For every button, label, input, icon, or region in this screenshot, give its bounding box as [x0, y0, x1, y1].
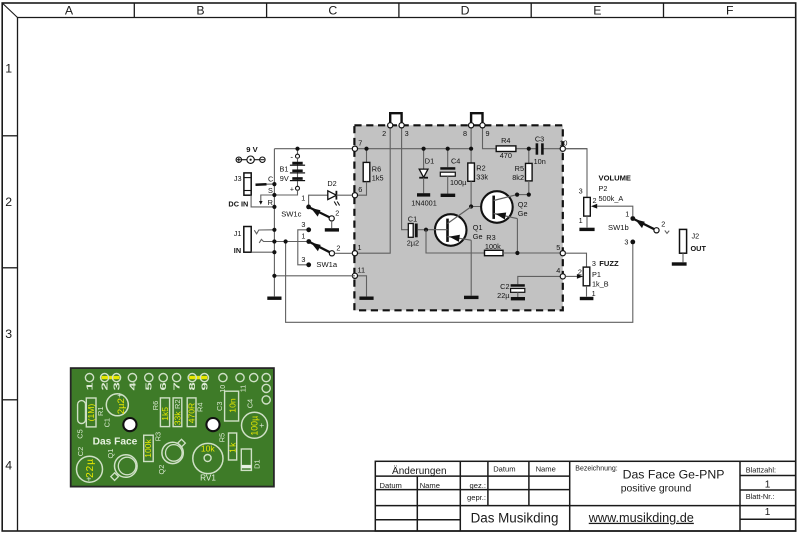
DC jack J3	[228, 173, 251, 209]
svg-text:8: 8	[188, 382, 197, 391]
svg-text:2µ2: 2µ2	[116, 398, 127, 414]
node C	[272, 182, 276, 186]
pcb jumper C5	[75, 401, 85, 439]
svg-text:R5: R5	[218, 433, 227, 442]
wire: Q2 collector to R5 bottom	[517, 194, 529, 196]
pcb jumper wire pads 2-3	[102, 376, 120, 379]
pin 9	[480, 123, 490, 138]
potentiometer P1	[565, 259, 619, 298]
pcb capacitor C4	[242, 399, 268, 438]
wire: pin 5 to P1 top	[565, 253, 586, 267]
ground for SW1c	[325, 228, 339, 231]
potentiometer P2	[579, 174, 633, 228]
svg-text:4: 4	[556, 266, 560, 275]
svg-text:R: R	[268, 198, 273, 207]
pcb resistor R5	[218, 433, 238, 460]
svg-text:DC IN: DC IN	[228, 200, 248, 209]
svg-text:22µ: 22µ	[497, 291, 510, 300]
svg-text:3: 3	[301, 220, 305, 229]
svg-text:1k5: 1k5	[160, 407, 170, 421]
svg-text:Das Musikding: Das Musikding	[471, 510, 559, 525]
svg-text:C4: C4	[451, 157, 460, 166]
output jack J2	[680, 229, 707, 262]
pcb resistor R1	[86, 398, 105, 427]
svg-text:+: +	[259, 420, 264, 430]
node D1/rail	[422, 147, 426, 151]
svg-text:RV1: RV1	[200, 473, 216, 482]
svg-text:SW1a: SW1a	[316, 260, 337, 269]
pcb pad holes row	[85, 374, 270, 405]
svg-text:1: 1	[358, 243, 362, 252]
svg-text:1: 1	[85, 382, 94, 391]
svg-text:C5: C5	[75, 429, 84, 438]
wire: pin 11 to internal ground	[357, 276, 367, 297]
svg-text:10n: 10n	[534, 157, 546, 166]
pcb capacitor C1	[103, 390, 129, 427]
resistor R6	[358, 149, 384, 196]
pcb board	[71, 368, 274, 487]
svg-text:R2: R2	[476, 164, 485, 173]
svg-text:R2: R2	[173, 400, 182, 409]
pcb capacitor C3	[215, 391, 239, 421]
svg-text:Q1: Q1	[473, 223, 483, 232]
svg-text:IN: IN	[234, 246, 241, 255]
svg-text:10: 10	[559, 138, 567, 147]
svg-text:4: 4	[128, 382, 137, 391]
svg-text:33k: 33k	[172, 411, 182, 426]
frame row labels	[5, 62, 12, 473]
wire: main negative rail from DC jack C to pin 8 column	[274, 148, 471, 150]
switch SW1c	[281, 193, 339, 221]
node R	[272, 205, 276, 209]
svg-text:2: 2	[336, 244, 340, 253]
svg-text:9V: 9V	[280, 174, 289, 183]
pcb mounting hole left	[123, 418, 136, 431]
svg-text:8k2: 8k2	[512, 173, 524, 182]
DC plug polarity symbol	[236, 156, 265, 163]
svg-text:5: 5	[144, 382, 153, 391]
wire: pin 3 down to C1	[402, 127, 409, 230]
svg-text:Q2: Q2	[157, 465, 166, 475]
input jack J1	[234, 227, 251, 255]
svg-text:R6: R6	[372, 164, 381, 173]
svg-text:SW1c: SW1c	[281, 210, 301, 219]
svg-text:3: 3	[579, 187, 583, 196]
node R2/rail/pin8	[469, 147, 473, 151]
svg-text:3: 3	[592, 259, 596, 268]
svg-text:7: 7	[172, 382, 181, 391]
svg-text:D1: D1	[425, 156, 434, 165]
PCB	[71, 368, 274, 487]
wire: SW1c pin2 to ground	[331, 221, 333, 228]
pcb resistor R4	[186, 398, 204, 427]
wire: bypass line J1 to SW1b pin 3	[286, 242, 633, 323]
svg-text:100k: 100k	[143, 438, 153, 457]
svg-text:1: 1	[301, 232, 305, 241]
ground for D1	[417, 193, 430, 196]
svg-text:C1: C1	[408, 214, 417, 223]
svg-text:500k_A: 500k_A	[599, 194, 624, 203]
svg-text:gepr.:: gepr.:	[467, 493, 486, 502]
wire: Q1 collector node to Q2 base	[471, 206, 494, 208]
wire: ground bus vertical at DC jack	[273, 149, 275, 297]
svg-text:8: 8	[463, 129, 467, 138]
svg-text:6: 6	[358, 185, 362, 194]
J3 contact R wire	[251, 195, 274, 207]
pcb trimmer RV1	[193, 443, 223, 482]
svg-text:Ge: Ge	[518, 209, 528, 218]
svg-text:2: 2	[578, 268, 582, 277]
pcb diode D1	[241, 449, 261, 470]
frame column labels	[65, 3, 734, 17]
svg-text:B: B	[196, 3, 204, 17]
node J1 ring	[272, 239, 276, 243]
transistor Q2	[481, 191, 527, 223]
capacitor C1	[407, 214, 426, 247]
svg-text:2: 2	[5, 195, 12, 209]
svg-text:Q2: Q2	[518, 200, 528, 209]
svg-text:9: 9	[486, 129, 490, 138]
svg-text:B1: B1	[280, 165, 289, 174]
svg-text:2: 2	[100, 382, 109, 391]
node R3 / Q2 emitter / pin 5	[515, 251, 519, 255]
node R5 bottom	[527, 193, 531, 197]
wire: SW1a pin2 to module pin 1	[335, 252, 353, 254]
svg-text:+: +	[86, 474, 91, 484]
pcb mounting hole right	[206, 418, 219, 431]
ground for J2	[672, 262, 687, 265]
svg-text:www.musikding.de: www.musikding.de	[588, 511, 694, 525]
ground for P1	[580, 297, 594, 300]
ground for P2	[579, 228, 594, 231]
J1 ring contact wire	[259, 239, 309, 243]
node R6/rail	[364, 147, 368, 151]
svg-text:1: 1	[579, 216, 583, 225]
svg-text:Name: Name	[536, 465, 556, 474]
svg-text:4: 4	[5, 459, 12, 473]
title block	[375, 461, 795, 531]
svg-text:2µ2: 2µ2	[407, 239, 419, 248]
svg-text:Bezeichnung:: Bezeichnung:	[575, 466, 617, 473]
svg-text:1N4001: 1N4001	[411, 199, 437, 208]
resistor R5	[512, 149, 532, 195]
svg-text:33k: 33k	[476, 173, 488, 182]
svg-text:1k5: 1k5	[372, 174, 384, 183]
pcb transistor Q2	[157, 439, 185, 474]
svg-text:D1: D1	[253, 459, 262, 468]
svg-text:FUZZ: FUZZ	[599, 259, 619, 268]
pin 5	[556, 243, 565, 256]
svg-text:11: 11	[358, 266, 366, 275]
svg-text:J1: J1	[234, 229, 242, 238]
J3 contact C	[256, 175, 274, 185]
pcb capacitor C2	[76, 447, 103, 484]
pin 7	[352, 139, 362, 152]
svg-text:2: 2	[661, 219, 665, 228]
svg-text:7: 7	[358, 139, 362, 148]
svg-text:(1M): (1M)	[86, 404, 96, 422]
svg-text:1: 1	[765, 507, 771, 518]
svg-text:3: 3	[405, 129, 409, 138]
svg-text:2: 2	[382, 129, 386, 138]
node J1 sleeve	[272, 250, 276, 254]
svg-text:J3: J3	[234, 174, 242, 183]
transistor Q1	[426, 207, 483, 246]
svg-text:C2: C2	[500, 282, 509, 291]
svg-text:R4: R4	[501, 136, 510, 145]
node S	[272, 193, 276, 197]
svg-text:1: 1	[5, 62, 12, 76]
capacitor C4	[440, 149, 467, 194]
svg-text:P2: P2	[599, 184, 608, 193]
wire: pin 9 to R4 to C3 to pin 10 and out	[483, 127, 588, 149]
svg-text:3: 3	[624, 238, 628, 247]
svg-text:Blatt-Nr.:: Blatt-Nr.:	[746, 492, 775, 501]
pin 3	[399, 123, 409, 138]
capacitor C2	[497, 276, 563, 300]
pcb jumper wire pads 8-9	[189, 376, 207, 379]
switch SW1a	[298, 220, 341, 269]
diode D2	[309, 179, 353, 205]
jumper bump pins 2-3	[390, 113, 401, 124]
svg-text:1: 1	[765, 479, 771, 490]
svg-text:R6: R6	[151, 401, 160, 410]
svg-text:C2: C2	[76, 447, 85, 456]
node bypass/J1 ring	[284, 239, 288, 243]
svg-text:Das Face Ge-PNP: Das Face Ge-PNP	[623, 467, 725, 481]
jumper bump pins 8-9	[471, 113, 482, 124]
resistor R2	[468, 127, 489, 207]
svg-text:1: 1	[625, 210, 629, 219]
ground for C4	[441, 194, 456, 197]
battery B1	[274, 149, 305, 195]
ground for C2	[511, 297, 525, 300]
SCHEMATIC	[228, 113, 706, 322]
pin 11	[352, 266, 365, 279]
pcb transistor Q1	[106, 449, 137, 481]
svg-text:C3: C3	[535, 134, 544, 143]
svg-text:10n: 10n	[228, 398, 238, 413]
svg-text:Name: Name	[420, 481, 440, 490]
pin 2	[382, 123, 393, 138]
pcb pad numbers	[85, 382, 247, 393]
svg-text:9: 9	[200, 382, 209, 391]
svg-text:100µ: 100µ	[450, 178, 467, 187]
pin 6	[352, 185, 362, 198]
svg-text:100µ: 100µ	[250, 416, 260, 436]
pcb resistor R6	[151, 398, 170, 427]
svg-text:Blattzahl:: Blattzahl:	[746, 465, 776, 474]
svg-text:R3: R3	[153, 432, 162, 441]
node C4/rail	[446, 147, 450, 151]
svg-text:E: E	[593, 3, 601, 17]
svg-text:C: C	[328, 3, 337, 17]
svg-text:D2: D2	[327, 179, 336, 188]
svg-text:R5: R5	[515, 164, 524, 173]
pcb resistor R3	[143, 432, 162, 462]
pin 1 (module)	[352, 243, 361, 256]
svg-text:1k: 1k	[228, 441, 238, 452]
J3 contact S wire to R lever	[259, 186, 274, 205]
node Q1 collector / R2	[469, 204, 473, 208]
svg-text:6: 6	[159, 382, 168, 391]
svg-text:A: A	[65, 3, 74, 17]
svg-text:1: 1	[301, 193, 305, 202]
J1 sleeve wire	[251, 251, 274, 253]
ground for pin 11	[359, 297, 373, 300]
svg-text:P1: P1	[592, 270, 601, 279]
svg-text:Das Face: Das Face	[93, 436, 138, 447]
diode D1	[411, 149, 437, 208]
svg-text:R4: R4	[196, 403, 205, 412]
svg-text:-: -	[290, 152, 293, 161]
ground for Q1 emitter	[464, 296, 479, 299]
svg-text:VOLUME: VOLUME	[599, 174, 632, 183]
node C1 / Q1 base / R3	[424, 228, 428, 232]
svg-text:C: C	[268, 175, 273, 184]
svg-text:10k: 10k	[201, 443, 216, 453]
svg-text:Q1: Q1	[106, 449, 115, 459]
node battery / rail	[295, 147, 299, 151]
svg-text:2: 2	[593, 196, 597, 205]
pin 8	[463, 123, 474, 138]
capacitor C3	[534, 134, 546, 166]
svg-text:100k: 100k	[485, 242, 501, 251]
wire: Q2 emitter down to R3 node	[516, 219, 518, 253]
svg-text:3: 3	[301, 255, 305, 264]
wire: ground bus to pin 11	[274, 275, 355, 277]
resistor R3	[426, 230, 563, 256]
resistor R4	[496, 136, 516, 160]
pcb resistor R2	[172, 398, 182, 427]
svg-text:470: 470	[500, 151, 512, 160]
wire: pin 10 to P2	[565, 149, 587, 198]
svg-text:OUT: OUT	[691, 244, 707, 253]
svg-text:Datum: Datum	[380, 481, 402, 490]
node R4/C3/R5	[527, 147, 531, 151]
switch SW1b	[608, 210, 669, 247]
node Q2 collector	[515, 193, 519, 197]
circuit board module box (dashed)	[354, 125, 562, 310]
svg-text:1k_B: 1k_B	[592, 279, 609, 288]
svg-text:3: 3	[5, 327, 12, 341]
svg-text:S: S	[268, 186, 273, 195]
svg-text:R1: R1	[96, 407, 105, 416]
svg-text:gez.:: gez.:	[470, 481, 486, 490]
svg-text:Datum: Datum	[493, 465, 515, 474]
svg-text:11: 11	[241, 385, 248, 392]
svg-text:positive ground: positive ground	[621, 484, 692, 495]
node J1 tip	[272, 228, 276, 232]
svg-text:F: F	[726, 3, 734, 17]
pin 4	[556, 266, 565, 279]
svg-text:Änderungen: Änderungen	[392, 465, 447, 477]
node bus/pin11	[272, 274, 276, 278]
wire: Q1 emitter down to ground	[470, 240, 472, 295]
svg-text:9 V: 9 V	[246, 145, 258, 154]
svg-text:C4: C4	[246, 399, 255, 408]
svg-text:C1: C1	[103, 418, 112, 427]
svg-text:Ge: Ge	[473, 232, 483, 241]
svg-text:R3: R3	[486, 233, 495, 242]
svg-text:+: +	[290, 187, 294, 194]
svg-text:SW1b: SW1b	[608, 223, 629, 232]
svg-text:C3: C3	[215, 402, 224, 411]
svg-text:J2: J2	[692, 231, 700, 240]
pin 10	[559, 138, 567, 151]
J1 tip contact wire	[254, 230, 273, 234]
svg-text:D: D	[461, 3, 470, 17]
svg-text:5: 5	[556, 243, 560, 252]
ground for input bus	[267, 297, 281, 300]
wire: pin 2 to pin 1 internal link	[355, 127, 390, 253]
svg-text:2: 2	[335, 209, 339, 218]
